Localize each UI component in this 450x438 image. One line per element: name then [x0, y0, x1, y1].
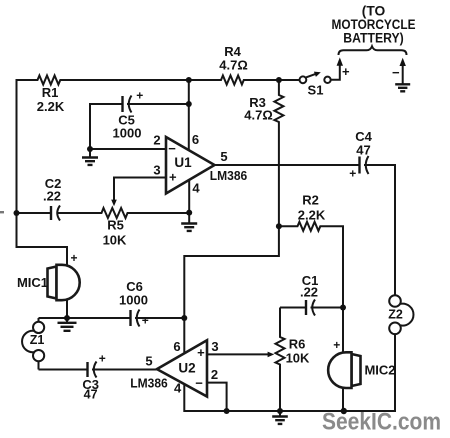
svg-text:2.2K: 2.2K: [298, 208, 326, 223]
svg-text:R2: R2: [302, 193, 319, 208]
svg-text:6: 6: [192, 132, 199, 147]
svg-text:+: +: [342, 64, 350, 79]
svg-text:2: 2: [153, 133, 160, 148]
svg-text:−: −: [195, 376, 203, 391]
svg-text:−: −: [392, 65, 400, 80]
svg-text:4.7Ω: 4.7Ω: [219, 58, 248, 73]
svg-text:.22: .22: [43, 189, 61, 204]
svg-text:R5: R5: [107, 218, 124, 233]
svg-text:3: 3: [211, 339, 218, 354]
svg-text:2: 2: [211, 367, 218, 382]
svg-text:+: +: [142, 314, 149, 328]
svg-text:47: 47: [356, 143, 370, 158]
svg-text:−: −: [168, 141, 176, 156]
svg-text:+: +: [197, 345, 205, 360]
svg-text:S1: S1: [308, 83, 324, 98]
svg-text:.22: .22: [300, 285, 318, 300]
svg-text:+: +: [169, 170, 177, 185]
svg-text:+: +: [70, 251, 77, 265]
svg-text:U1: U1: [174, 155, 192, 170]
svg-text:+: +: [349, 167, 356, 181]
svg-text:R6: R6: [289, 337, 306, 352]
svg-text:+: +: [136, 89, 143, 103]
svg-text:MIC1: MIC1: [17, 275, 48, 290]
svg-text:10K: 10K: [103, 233, 127, 248]
svg-text:4: 4: [174, 381, 182, 396]
svg-text:SeekIC.com: SeekIC.com: [322, 409, 441, 436]
svg-text:+: +: [99, 352, 106, 366]
svg-text:6: 6: [173, 339, 180, 354]
svg-text:U2: U2: [178, 361, 195, 376]
svg-text:1000: 1000: [119, 293, 148, 308]
svg-text:3: 3: [153, 163, 160, 178]
svg-text:Z1: Z1: [30, 333, 45, 347]
svg-text:Z2: Z2: [388, 308, 403, 322]
svg-text:5: 5: [220, 149, 227, 164]
svg-text:R1: R1: [42, 85, 59, 100]
svg-text:10K: 10K: [286, 351, 310, 366]
svg-text:LM386: LM386: [210, 168, 248, 183]
svg-text:2.2K: 2.2K: [37, 99, 65, 114]
svg-text:4: 4: [192, 181, 200, 196]
svg-text:MIC2: MIC2: [364, 363, 395, 378]
svg-text:+: +: [333, 338, 340, 352]
svg-text:47: 47: [84, 388, 98, 402]
svg-text:5: 5: [145, 354, 152, 369]
svg-text:BATTERY): BATTERY): [343, 31, 404, 46]
svg-text:LM386: LM386: [130, 376, 168, 391]
svg-text:4.7Ω: 4.7Ω: [244, 108, 273, 123]
svg-text:1000: 1000: [113, 126, 142, 141]
